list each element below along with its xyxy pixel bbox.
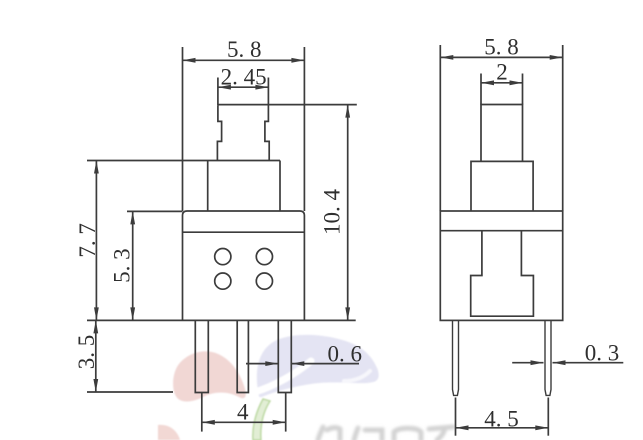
side view: 0.3 right arrow line	[553, 362, 624, 364]
svg-text:4: 4	[237, 400, 249, 425]
front view: 0.6 left arrow line	[246, 363, 278, 365]
front view: body outline (rounded top)	[183, 211, 305, 320]
svg-text:2. 45: 2. 45	[221, 65, 267, 90]
front view: 3.5 dimension line	[95, 320, 97, 392]
watermark blue swoosh blob	[257, 335, 379, 397]
front view: plunger top edge / 10.4 leader line	[218, 104, 357, 106]
front view: pin 1	[195, 320, 208, 392]
front view: rivet circle bottom-left	[215, 273, 231, 289]
front view: 3.5 bottom extension line	[87, 391, 173, 393]
front view: pin 2	[237, 320, 248, 392]
side view: plunger base block	[471, 161, 533, 211]
front view: collar left side	[207, 161, 209, 212]
front view: 10.4 dimension line	[347, 105, 349, 321]
side view: 5.8 width right extension line	[562, 45, 564, 211]
side view: inner T-shaped contact housing	[471, 231, 534, 317]
front view: pin 3	[278, 320, 291, 392]
front view: 5.3 dimension line	[132, 211, 134, 320]
side view: 4.5 dimension line	[456, 427, 549, 429]
svg-text:5. 8: 5. 8	[227, 37, 262, 62]
front view: 4 dimension line	[202, 421, 286, 423]
side view: 2 left extension line	[480, 74, 482, 105]
side view: body outline	[440, 211, 562, 320]
front view: 4 right extension line	[285, 393, 287, 432]
svg-text:5. 3: 5. 3	[110, 248, 135, 283]
side view: 5.8 width left extension line	[439, 45, 441, 211]
watermark white crescent highlight	[255, 361, 311, 392]
front view: 2.45 dimension line	[218, 86, 269, 88]
front view: 2.45 right extension line	[267, 78, 269, 106]
side view: 2 dimension line	[481, 82, 523, 84]
front view: 5.8 width left extension line	[182, 47, 184, 211]
front view: 5.3 top extension line	[127, 210, 183, 212]
watermark gray character tops	[318, 427, 453, 440]
svg-text:5. 8: 5. 8	[484, 35, 519, 60]
front view: collar right side	[279, 161, 281, 212]
svg-text:2: 2	[496, 60, 508, 85]
svg-text:7. 7: 7. 7	[75, 223, 100, 258]
front view: plunger right side with notch	[265, 105, 269, 160]
front view: 5.8 dimension line	[183, 59, 305, 61]
front view: plunger left side with notch	[217, 105, 221, 160]
front view: 0.6 right arrow line	[291, 363, 359, 365]
side view: pin left	[453, 320, 459, 395]
front view: 7.7 dimension line	[95, 161, 97, 321]
svg-text:10. 4: 10. 4	[320, 189, 345, 236]
side view: pin right	[545, 320, 551, 395]
watermark pink corner bit	[158, 425, 180, 440]
front view: 4 left extension line	[201, 393, 203, 432]
svg-text:3. 5: 3. 5	[74, 335, 99, 370]
front view: rivet circle top-left	[215, 249, 231, 265]
watermark green stem	[253, 399, 270, 440]
front view: body cap band line	[183, 231, 305, 233]
side view: 0.3 left arrow line	[512, 362, 543, 364]
side view: plunger stem	[481, 105, 523, 162]
front view: body bottom line	[87, 319, 356, 321]
side view: 4.5 left extension line	[455, 398, 457, 436]
front view: 5.8 width right extension line	[303, 47, 305, 211]
side view: 4.5 right extension line	[547, 398, 549, 436]
front view: 7.7 top extension line + collar top edge	[87, 160, 280, 162]
front view: rivet circle bottom-right	[256, 273, 272, 289]
front view: 2.45 left extension line	[217, 78, 219, 106]
watermark pink wing blob	[173, 351, 246, 401]
svg-text:0. 3: 0. 3	[585, 341, 620, 366]
side view: 2 right extension line	[522, 74, 524, 105]
side view: body band line	[440, 230, 562, 232]
front view: rivet circle top-right	[256, 249, 272, 265]
watermark white tail highlight	[344, 371, 370, 381]
svg-text:4. 5: 4. 5	[484, 406, 519, 431]
side view: 5.8 dimension line	[440, 56, 562, 58]
svg-text:0. 6: 0. 6	[328, 342, 363, 367]
